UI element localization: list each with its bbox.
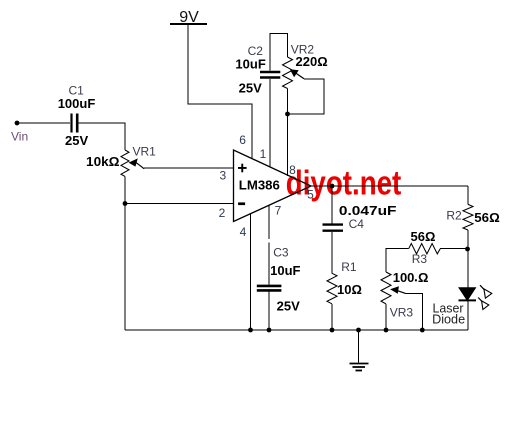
light emission arrow 1	[480, 285, 484, 290]
svg-text:10uF: 10uF	[235, 57, 265, 72]
laser diode D1	[459, 285, 492, 309]
svg-text:10kΩ: 10kΩ	[86, 154, 120, 169]
wire laser cathode to bus	[467, 300, 469, 330]
node junction VR2 loop on pin 8 line	[285, 112, 290, 117]
wire junction down to ground bus	[124, 204, 126, 331]
potentiometer VR2 220	[283, 57, 305, 89]
light emission arrow 2	[478, 298, 482, 302]
svg-text:10Ω: 10Ω	[337, 282, 362, 297]
svg-text:2: 2	[219, 206, 226, 220]
wire C2 top to staple	[270, 34, 288, 71]
svg-text:1: 1	[260, 147, 267, 161]
wire VR2 wiper loop	[288, 79, 325, 114]
wire VR1 bottom to junction	[124, 176, 126, 203]
wire VR1 wiper to pin 3	[144, 167, 234, 169]
node junction VR1 bottom	[123, 201, 128, 206]
svg-text:100 Ω: 100 Ω	[393, 270, 429, 285]
resistor R3 56	[409, 244, 441, 254]
wire output corner down to R2	[467, 186, 469, 204]
svg-text:25V: 25V	[239, 81, 262, 96]
wire junction to pin 2	[125, 203, 234, 205]
svg-text:100uF: 100uF	[58, 96, 96, 111]
wire VR2 bottom to pin 8	[287, 89, 289, 177]
svg-text:4: 4	[240, 225, 247, 239]
node junction C3 on bus	[267, 328, 272, 333]
wire pin 7 lower segment to C3	[268, 242, 270, 284]
svg-text:25V: 25V	[65, 133, 88, 148]
node junction VR3 wiper on bus	[420, 328, 425, 333]
label Laser Diode	[432, 300, 465, 326]
capacitor C4	[323, 225, 344, 231]
potentiometer VR1 10k	[121, 150, 144, 176]
capacitor C1	[72, 114, 78, 133]
wire R3 to R2 node	[440, 248, 467, 250]
node junction R3 tap	[465, 247, 470, 252]
wire VR3 wiper to bus	[405, 293, 422, 330]
node junction VR3 bottom on bus	[384, 328, 389, 333]
svg-text:3: 3	[219, 169, 226, 183]
capacitor C3	[257, 286, 282, 291]
wire R3 left branch	[386, 249, 409, 272]
resistor R1 10	[327, 273, 337, 304]
wire R1 to bus	[331, 304, 333, 330]
svg-text:R3: R3	[412, 252, 428, 266]
node junction ground on bus	[356, 328, 361, 333]
wire VR3 bottom to bus	[385, 304, 387, 330]
wire output node down to C4	[331, 186, 333, 224]
wire pin 4 to bus	[250, 214, 252, 330]
potentiometer VR3 100	[381, 272, 405, 304]
wire R2 to laser diode	[467, 230, 469, 288]
svg-text:R1: R1	[341, 260, 357, 274]
svg-text:8: 8	[289, 163, 296, 177]
wire ground bus	[125, 329, 468, 331]
op-amp U1 LM386	[234, 150, 312, 222]
svg-text:56Ω: 56Ω	[474, 210, 500, 225]
svg-text:Vin: Vin	[11, 130, 28, 144]
svg-text:VR1: VR1	[133, 144, 157, 158]
svg-text:6: 6	[239, 133, 246, 147]
wire Vin to C1	[17, 122, 70, 124]
resistor R2 56	[463, 204, 473, 230]
node junction R1 on bus	[330, 328, 335, 333]
wire pin 7 upper segment	[268, 205, 270, 239]
wire C3 bottom to bus	[268, 292, 270, 331]
svg-text:0.047uF: 0.047uF	[339, 203, 397, 218]
svg-text:Diode: Diode	[432, 311, 465, 326]
node junction pin 4 on bus	[248, 328, 253, 333]
wire 9V rail to pin 6	[188, 24, 252, 159]
svg-text:7: 7	[275, 204, 282, 218]
svg-text:10uF: 10uF	[270, 263, 300, 278]
svg-text:VR3: VR3	[390, 306, 414, 320]
svg-text:LM386: LM386	[239, 177, 280, 192]
svg-text:5: 5	[307, 187, 314, 201]
svg-text:C4: C4	[349, 217, 365, 231]
svg-text:9V: 9V	[179, 9, 199, 26]
wire C1 to VR1 top	[79, 123, 126, 150]
power 9V supply bar	[170, 9, 207, 26]
svg-text:diyot.net: diyot.net	[286, 165, 402, 203]
wire C4 to R1	[331, 232, 333, 273]
wire output pin 5	[311, 185, 468, 187]
svg-text:C3: C3	[273, 245, 289, 259]
node Vin	[15, 121, 20, 126]
ground	[350, 330, 369, 371]
svg-text:R2: R2	[446, 209, 462, 223]
svg-text:56Ω: 56Ω	[411, 229, 436, 244]
wire pin 1 up to C2	[269, 79, 271, 167]
svg-text:25V: 25V	[277, 299, 300, 314]
capacitor C2	[260, 72, 280, 78]
svg-text:220Ω: 220Ω	[296, 54, 328, 69]
node output junction	[330, 184, 335, 189]
